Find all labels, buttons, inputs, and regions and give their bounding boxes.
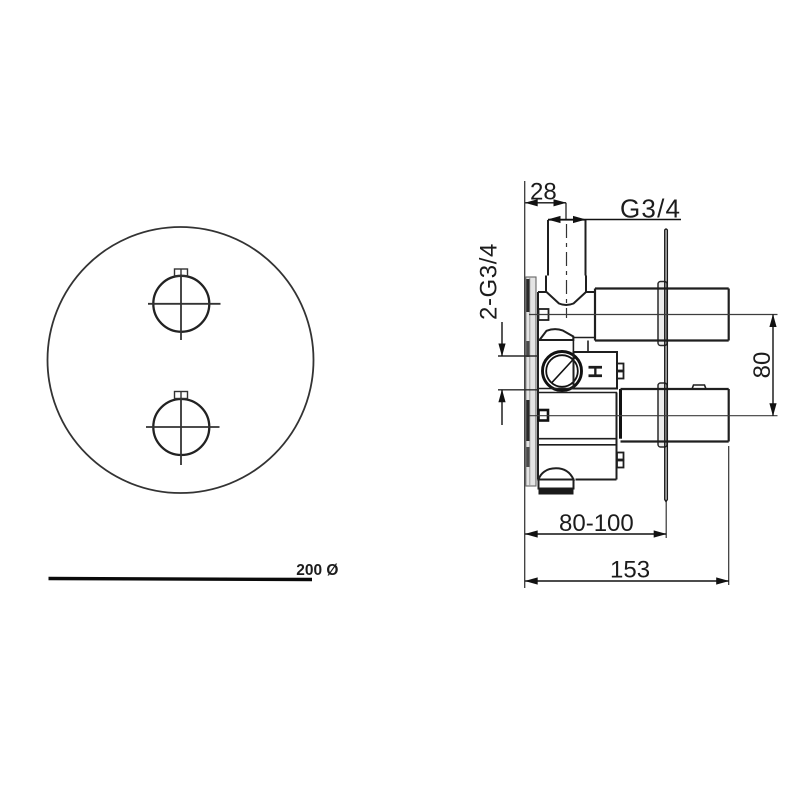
trim plate (thin section) [665, 229, 668, 502]
dimension 153 (total depth) [525, 446, 729, 585]
trim plate collar (bottom pipe) [658, 383, 667, 447]
svg-text:80-100: 80-100 [559, 510, 634, 537]
bottom pipe centerline [529, 415, 778, 417]
dimension 28 [525, 179, 566, 220]
bottom fitting thick base [539, 489, 574, 495]
knob (bottom) handle circle [153, 399, 209, 455]
top pipe centerline [529, 314, 778, 316]
svg-text:G3/4: G3/4 [620, 194, 681, 224]
trim plate collar (top pipe) [658, 282, 667, 346]
diameter scale bar 200 [49, 562, 339, 580]
knob (top) index tab [175, 269, 188, 276]
body lower right edge [576, 393, 617, 480]
dimension 80-100 (depth range) [525, 502, 666, 539]
cartridge housing box with H mark [574, 352, 618, 389]
dimension 2-G3/4 (inlets) [476, 243, 503, 425]
bottom outlet pipe [621, 389, 729, 442]
knob (top) crosshair [148, 275, 221, 341]
svg-text:200 Ø: 200 Ø [296, 562, 338, 579]
knob (bottom) crosshair [146, 399, 220, 466]
svg-text:2-G3/4: 2-G3/4 [476, 243, 503, 320]
inlet centerline (cold) [498, 389, 538, 391]
dimension G3/4 (riser thread) [548, 194, 681, 224]
top riser pipe G3/4 [548, 220, 586, 276]
wall reference line [524, 181, 526, 588]
front view: round escutcheon plate [48, 227, 314, 493]
valve body: upper funnel / chamfer [538, 276, 595, 306]
top outlet pipe (to shower) [595, 289, 729, 341]
wall plate screw lug (bottom) [539, 410, 549, 421]
svg-text:153: 153 [610, 557, 650, 584]
riser pipe centerline (dashed) [566, 224, 568, 318]
wall plate screw lug (top) [539, 309, 549, 320]
body mid right heavy edge [619, 389, 622, 439]
knob (top) handle circle [153, 276, 209, 332]
cartridge clip right [617, 364, 624, 379]
lower clips right [617, 453, 624, 468]
svg-text:80: 80 [749, 352, 776, 379]
bottom pipe top notch [692, 385, 706, 389]
knob (bottom) index tab [175, 392, 188, 399]
mounting back plate (section) [526, 277, 536, 486]
bottom inlet dome fitting [539, 468, 574, 488]
thermostat cartridge circle [543, 352, 582, 391]
body mid ledge lines [538, 389, 617, 445]
valve body: left edge [537, 292, 539, 480]
svg-text:H: H [584, 365, 605, 379]
svg-text:28: 28 [530, 179, 557, 206]
inlet centerline (hot) [498, 355, 538, 357]
cartridge dome cap [540, 329, 574, 340]
dimension 80 (outlet spacing) [749, 315, 776, 416]
dome right ledge to pipe [573, 338, 595, 353]
